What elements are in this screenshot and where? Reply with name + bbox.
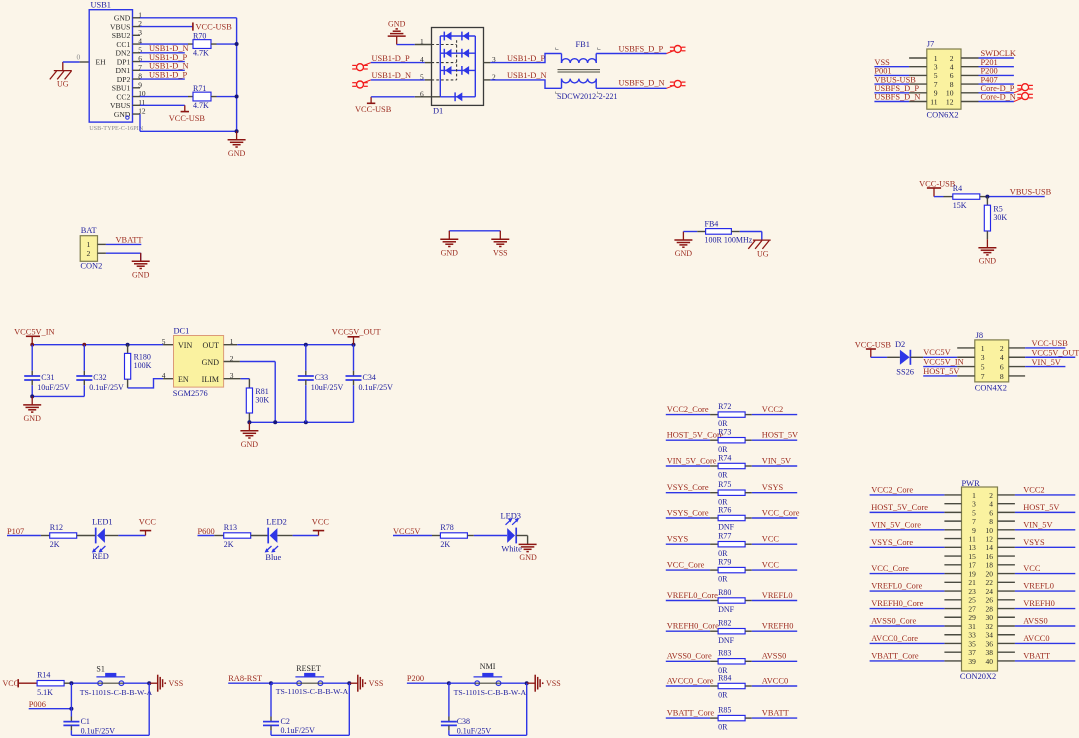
- wire J7 pin6 P200: [979, 74, 1014, 76]
- wire VSYS to R77: [666, 543, 710, 545]
- svg-text:VCC-USB: VCC-USB: [196, 22, 233, 31]
- svg-text:S1: S1: [96, 665, 104, 674]
- svg-text:D2: D2: [895, 340, 905, 349]
- svg-text:DNF: DNF: [718, 523, 735, 532]
- wire P107 to R12: [7, 535, 41, 537]
- resistor R85: [718, 706, 745, 732]
- svg-text:VCC: VCC: [1023, 564, 1041, 573]
- svg-text:R73: R73: [718, 428, 731, 437]
- power port VSS at RESET: [349, 675, 383, 692]
- wire R76 to VCC_Core: [745, 517, 752, 519]
- svg-text:2K: 2K: [50, 540, 60, 549]
- common-mode choke FB1: [556, 40, 618, 101]
- svg-text:EH: EH: [96, 58, 107, 67]
- svg-text:USB1-D_P: USB1-D_P: [149, 53, 188, 62]
- svg-text:P407: P407: [981, 75, 998, 84]
- svg-text:USB1-D_N: USB1-D_N: [507, 71, 547, 80]
- svg-text:C38: C38: [457, 717, 470, 726]
- svg-text:P200: P200: [981, 67, 998, 76]
- svg-text:RED: RED: [92, 552, 109, 561]
- svg-text:AVCC0_Core: AVCC0_Core: [871, 634, 918, 643]
- svg-text:VSYS: VSYS: [1023, 538, 1045, 547]
- svg-text:GND: GND: [388, 19, 406, 28]
- ground above D1: [388, 19, 406, 44]
- svg-text:R79: R79: [718, 558, 731, 567]
- svg-text:USBFS_D_N: USBFS_D_N: [874, 93, 920, 102]
- wire VBUS-USB to J7 pin7: [874, 83, 909, 85]
- svg-text:VSS: VSS: [169, 679, 184, 688]
- svg-text:7: 7: [981, 372, 985, 381]
- wire BAT pin1 VBATT: [106, 243, 141, 245]
- wire VSYS_Core to PWR pin13: [870, 546, 945, 548]
- svg-text:USBFS_D_N: USBFS_D_N: [619, 78, 665, 87]
- power port VCC5V_IN: [14, 328, 54, 345]
- wire D1 pin3 to FB1: [490, 54, 561, 63]
- svg-text:6: 6: [420, 89, 424, 98]
- svg-text:28: 28: [986, 604, 994, 613]
- resistor R84: [718, 673, 745, 699]
- pin stub GND of DC1: [224, 361, 240, 363]
- svg-text:11: 11: [930, 97, 938, 106]
- svg-text:FB1: FB1: [576, 40, 590, 49]
- wire GND to FB4: [683, 231, 697, 233]
- resistor R75: [718, 480, 745, 506]
- ground at BAT: [132, 253, 150, 279]
- wire C31-C32 bottom: [32, 395, 84, 397]
- svg-text:10uF/25V: 10uF/25V: [37, 383, 70, 392]
- wire R74 to VIN_5V: [745, 465, 752, 467]
- svg-text:5: 5: [420, 72, 424, 81]
- svg-text:VCC-USB: VCC-USB: [169, 114, 206, 123]
- wire junction down to C1: [70, 683, 72, 716]
- svg-text:18: 18: [986, 561, 994, 570]
- svg-text:2: 2: [87, 249, 91, 258]
- ground at R81: [240, 422, 258, 449]
- svg-text:USB1-D_N: USB1-D_N: [149, 44, 189, 53]
- svg-text:Core-D_N: Core-D_N: [981, 93, 1016, 102]
- power port VCC-USB at D2: [855, 341, 892, 358]
- svg-text:SDCW2012-2-221: SDCW2012-2-221: [557, 92, 617, 101]
- svg-text:0.1uF/25V: 0.1uF/25V: [81, 727, 116, 736]
- svg-text:VREFH0: VREFH0: [1023, 599, 1055, 608]
- svg-text:VCC: VCC: [762, 535, 780, 544]
- connector PWR: [944, 479, 1015, 681]
- wire PWR pin20 VCC: [1015, 573, 1075, 575]
- junction R81 bottom: [247, 420, 251, 424]
- svg-text:TS-1101S-C-B-B-W-A: TS-1101S-C-B-B-W-A: [276, 687, 349, 696]
- svg-text:P001: P001: [874, 67, 891, 76]
- wire pin1 GND to vertical rail: [140, 17, 237, 19]
- svg-text:TS-1101S-C-B-B-W-A: TS-1101S-C-B-B-W-A: [454, 688, 527, 697]
- svg-text:VCC2_Core: VCC2_Core: [871, 486, 913, 495]
- svg-text:VIN_5V_Core: VIN_5V_Core: [667, 456, 717, 465]
- port link Core-D_P: [1014, 90, 1022, 93]
- wire J7 pin10 Core-D_P: [979, 92, 1014, 94]
- wire AVSS0_Core to PWR pin31: [870, 625, 945, 627]
- LED LED2: [268, 528, 277, 544]
- wire R12 to LED1: [77, 535, 96, 537]
- svg-text:R75: R75: [718, 480, 731, 489]
- junction C33 bottom: [304, 420, 308, 424]
- port USBFS_D_N: [670, 80, 686, 87]
- junction P006: [69, 707, 73, 711]
- power port VCC-USB at R4: [919, 180, 956, 197]
- wire J8 pin6 VIN_5V: [1025, 366, 1065, 368]
- svg-text:3: 3: [138, 28, 142, 37]
- wire VCC5V to R78: [393, 535, 432, 537]
- svg-text:12: 12: [946, 97, 954, 106]
- wire NMI to VSS: [501, 682, 527, 684]
- wire RESET to VSS: [323, 682, 350, 684]
- svg-text:DN1: DN1: [116, 66, 131, 75]
- svg-text:CON6X2: CON6X2: [927, 110, 959, 119]
- resistor R70: [193, 31, 211, 57]
- wire pin8 USB1-D_P: [140, 78, 185, 80]
- wire GND pin to bottom rail: [240, 361, 275, 363]
- svg-text:0: 0: [77, 52, 81, 61]
- wire P006: [29, 708, 72, 710]
- wire RESET right down: [348, 683, 350, 735]
- junction R14/S1: [69, 681, 73, 685]
- svg-text:VSS: VSS: [369, 679, 384, 688]
- wire PWR pin2 VCC2: [1015, 494, 1075, 496]
- svg-text:DNF: DNF: [718, 605, 735, 614]
- switch RESET: [295, 673, 324, 686]
- resistor R76: [718, 505, 745, 531]
- svg-text:VSYS_Core: VSYS_Core: [667, 508, 709, 517]
- svg-text:R12: R12: [50, 523, 63, 532]
- port USB1-D_N (left): [352, 81, 368, 88]
- junction R4/R5: [985, 195, 989, 199]
- svg-text:R85: R85: [718, 706, 731, 715]
- svg-text:0R: 0R: [718, 549, 728, 558]
- svg-text:R13: R13: [224, 523, 237, 532]
- svg-text:R70: R70: [193, 31, 206, 40]
- svg-text:C33: C33: [315, 373, 328, 382]
- svg-text:VIN: VIN: [178, 341, 192, 350]
- svg-text:GND: GND: [441, 248, 459, 257]
- svg-text:VCC_Core: VCC_Core: [762, 508, 800, 517]
- svg-text:VCC_Core: VCC_Core: [667, 561, 705, 570]
- wire junction down to C38: [448, 683, 450, 716]
- svg-text:CON4X2: CON4X2: [975, 384, 1007, 393]
- capacitor C34: [346, 345, 394, 423]
- switch S1: [96, 673, 125, 686]
- wire J7 pin4 P201: [979, 66, 1014, 68]
- svg-text:VBUS: VBUS: [110, 101, 130, 110]
- wire P001 to J7 pin5: [874, 74, 909, 76]
- svg-text:27: 27: [968, 604, 976, 613]
- wire VBATT_Core to R85: [666, 717, 710, 719]
- svg-text:CC2: CC2: [116, 92, 130, 101]
- svg-text:5.1K: 5.1K: [37, 688, 53, 697]
- wire NMI right down: [526, 683, 528, 735]
- junction P200: [447, 681, 451, 685]
- svg-text:HOST_5V: HOST_5V: [762, 431, 798, 440]
- svg-text:VCC5V_OUT: VCC5V_OUT: [332, 328, 381, 337]
- svg-text:36: 36: [986, 639, 994, 648]
- pin stub VIN: [163, 344, 173, 346]
- junction S1/VSS: [147, 681, 151, 685]
- wire VREFH0_Core to PWR pin27: [870, 608, 945, 610]
- svg-text:37: 37: [968, 648, 976, 657]
- wire USB1-D_N to D1 pin5: [371, 79, 425, 81]
- resistor R79: [718, 558, 745, 584]
- svg-text:VCC-USB: VCC-USB: [1032, 339, 1069, 348]
- power port VCC at LED1: [139, 518, 157, 536]
- svg-text:32: 32: [986, 622, 994, 631]
- svg-text:0R: 0R: [718, 471, 728, 480]
- svg-text:GND: GND: [241, 440, 259, 449]
- LED LED3: [507, 528, 516, 544]
- resistor R13: [224, 523, 251, 549]
- wire PWR pin14 VSYS: [1015, 546, 1075, 548]
- svg-text:9: 9: [138, 80, 142, 89]
- svg-text:AVCC0: AVCC0: [762, 676, 788, 685]
- chassis ground UG: [50, 62, 72, 88]
- svg-text:USBFS_D_P: USBFS_D_P: [619, 45, 664, 54]
- svg-text:DC1: DC1: [174, 326, 190, 335]
- svg-text:R72: R72: [718, 402, 731, 411]
- wire C2 bottom rail: [271, 734, 349, 736]
- pin3 stub D1: [484, 62, 491, 64]
- svg-text:VCC5V: VCC5V: [923, 348, 950, 357]
- wire vertical GND rail: [236, 18, 238, 132]
- port USB1-D_P (left): [352, 64, 368, 71]
- svg-text:8: 8: [1000, 372, 1004, 381]
- svg-text:1: 1: [87, 240, 91, 249]
- wire HOST_5V_Core to PWR pin5: [870, 511, 945, 513]
- svg-text:LED2: LED2: [266, 518, 286, 527]
- svg-text:GND: GND: [114, 14, 131, 23]
- wire J7 pin2 SWDCLK: [979, 57, 1014, 59]
- LED3 arrows: [506, 518, 520, 525]
- wire EH to UG: [63, 61, 80, 63]
- wire VIN_5V_Core to R74: [666, 465, 710, 467]
- wire PWR pin10 VIN_5V: [1015, 529, 1075, 531]
- svg-text:PWR: PWR: [962, 479, 981, 488]
- svg-text:USB1-D_N: USB1-D_N: [149, 62, 189, 71]
- svg-text:R14: R14: [37, 671, 50, 680]
- svg-text:VCC2_Core: VCC2_Core: [667, 405, 709, 414]
- resistor R82: [718, 619, 745, 645]
- svg-text:GND: GND: [114, 110, 131, 119]
- svg-text:VIN_5V_Core: VIN_5V_Core: [871, 520, 921, 529]
- svg-text:ILIM: ILIM: [202, 375, 219, 384]
- svg-text:VSS: VSS: [874, 58, 890, 67]
- wire pin10 CC2 to R71: [140, 96, 188, 98]
- pin stub ILIM: [224, 378, 241, 380]
- wire ILIM to R81: [241, 378, 250, 380]
- svg-text:R76: R76: [718, 505, 731, 514]
- svg-text:10: 10: [946, 89, 954, 98]
- svg-text:GND: GND: [24, 414, 42, 423]
- svg-text:2K: 2K: [440, 540, 450, 549]
- wire R82 to VREFH0: [745, 630, 752, 632]
- svg-text:10: 10: [986, 526, 994, 535]
- svg-text:5: 5: [162, 337, 166, 346]
- svg-text:5: 5: [981, 362, 985, 371]
- svg-text:21: 21: [968, 578, 976, 587]
- wire pin11 VBUS: [140, 104, 185, 106]
- svg-text:17: 17: [968, 561, 976, 570]
- svg-text:VREFL0: VREFL0: [1023, 582, 1054, 591]
- capacitor C32: [76, 345, 124, 397]
- port link USBFS_D_P: [667, 51, 675, 54]
- svg-text:NMI: NMI: [480, 662, 496, 671]
- svg-text:1: 1: [972, 491, 976, 500]
- wire R78 to LED3: [467, 535, 473, 537]
- svg-text:4: 4: [1000, 353, 1004, 362]
- wire R73 to HOST_5V: [745, 439, 752, 441]
- svg-text:VCC-USB: VCC-USB: [355, 105, 392, 114]
- resistor R78: [440, 523, 467, 549]
- svg-text:R74: R74: [718, 453, 731, 462]
- svg-text:VBATT: VBATT: [1023, 652, 1050, 661]
- svg-text:34: 34: [986, 631, 994, 640]
- connector USB1: [89, 1, 146, 133]
- svg-text:GND: GND: [202, 358, 220, 367]
- svg-text:3: 3: [972, 500, 976, 509]
- svg-text:SGM2576: SGM2576: [173, 389, 208, 398]
- wire C1 bottom rail: [71, 734, 149, 736]
- svg-text:VCC2: VCC2: [762, 405, 783, 414]
- svg-text:DN2: DN2: [116, 49, 131, 58]
- svg-text:VREFH0_Core: VREFH0_Core: [871, 599, 923, 608]
- power port VCC5V_OUT: [332, 328, 381, 345]
- wire R80 to VREFL0: [745, 600, 752, 602]
- svg-text:10uF/25V: 10uF/25V: [311, 383, 344, 392]
- wire J8 pin2 VCC-USB: [1025, 347, 1065, 349]
- resistor R81: [246, 387, 269, 413]
- svg-text:GND: GND: [675, 249, 693, 258]
- wire R84 to AVCC0: [745, 685, 752, 687]
- junction R180 top: [126, 343, 130, 347]
- power port VSS at NMI: [527, 675, 561, 692]
- svg-text:15: 15: [968, 552, 976, 561]
- svg-text:0.1uF/25V: 0.1uF/25V: [457, 726, 492, 735]
- resistor R4: [953, 184, 980, 210]
- svg-text:C34: C34: [363, 373, 376, 382]
- LED2 arrows: [265, 546, 279, 553]
- chassis ground UG at FB4: [748, 240, 770, 259]
- svg-text:4: 4: [420, 55, 424, 64]
- svg-text:VREFL0: VREFL0: [762, 591, 793, 600]
- svg-text:C1: C1: [81, 717, 90, 726]
- svg-text:8: 8: [989, 517, 993, 526]
- svg-text:VCC5V: VCC5V: [393, 527, 420, 536]
- svg-text:VREFL0_Core: VREFL0_Core: [667, 591, 718, 600]
- wire pin7 USB1-D_N: [140, 69, 185, 71]
- port USBFS_D_P: [670, 46, 686, 53]
- svg-text:USB1: USB1: [91, 1, 111, 10]
- capacitor C1: [63, 717, 115, 736]
- svg-text:P107: P107: [7, 527, 24, 536]
- wire R71 to rail: [211, 96, 217, 98]
- ground at LED3: [519, 544, 537, 562]
- ground at C31: [23, 396, 41, 423]
- wire FB1 to USBFS_D_N port: [596, 87, 666, 89]
- svg-text:White: White: [501, 544, 522, 553]
- connector BAT: [80, 226, 106, 270]
- svg-text:33: 33: [968, 631, 976, 640]
- svg-text:FB4: FB4: [705, 219, 719, 228]
- svg-text:11: 11: [969, 535, 976, 544]
- wire R75 to VSYS: [745, 492, 752, 494]
- svg-text:LED1: LED1: [92, 518, 112, 527]
- wire BAT pin2 to GND: [106, 252, 141, 254]
- wire D2 to VCC5V: [910, 356, 923, 358]
- connector J7: [909, 40, 978, 120]
- svg-text:R4: R4: [953, 184, 962, 193]
- wire VREFL0_Core to PWR pin23: [870, 590, 945, 592]
- svg-text:9: 9: [972, 526, 976, 535]
- capacitor C33: [298, 345, 344, 423]
- pin2 stub D1: [484, 79, 491, 81]
- wire junction to NMI switch: [449, 682, 475, 684]
- svg-text:C32: C32: [93, 373, 106, 382]
- svg-text:R84: R84: [718, 673, 731, 682]
- wire USB1-D_P to D1 pin4: [371, 62, 425, 64]
- wire PWR pin36 AVCC0: [1015, 642, 1075, 644]
- resistor R71: [193, 84, 211, 110]
- svg-text:CC1: CC1: [116, 40, 130, 49]
- svg-text:2: 2: [989, 491, 993, 500]
- junction at R71/rail: [235, 95, 239, 99]
- ground: [228, 131, 246, 158]
- svg-text:SWDCLK: SWDCLK: [981, 49, 1016, 58]
- svg-text:VCC: VCC: [139, 518, 157, 527]
- wire OUT to VCC5V_OUT: [237, 344, 353, 346]
- wire P600 to R13: [198, 535, 215, 537]
- wire LED1 to VCC: [105, 535, 119, 537]
- svg-text:39: 39: [968, 657, 976, 666]
- svg-text:20: 20: [986, 569, 994, 578]
- svg-text:VCC2: VCC2: [1023, 486, 1044, 495]
- svg-text:35: 35: [968, 639, 976, 648]
- wire J7 pin8 P407: [979, 83, 1014, 85]
- svg-text:40: 40: [986, 657, 994, 666]
- pin stub OUT: [224, 344, 238, 346]
- LED1 arrows: [92, 546, 106, 553]
- junction C33 top: [304, 343, 308, 347]
- junction C34 top: [352, 343, 356, 347]
- svg-text:VBATT: VBATT: [762, 709, 789, 718]
- wire VSS to J7 pin3: [874, 66, 909, 68]
- resistor R77: [718, 532, 745, 558]
- svg-text:D1: D1: [433, 106, 443, 115]
- svg-text:22: 22: [986, 578, 994, 587]
- wire pin2 VBUS: [140, 26, 193, 28]
- svg-text:38: 38: [986, 648, 994, 657]
- svg-text:VCC: VCC: [312, 518, 330, 527]
- wire LED2 to VCC: [277, 535, 292, 537]
- svg-text:R83: R83: [718, 649, 731, 658]
- svg-text:4: 4: [162, 371, 166, 380]
- svg-text:VBUS-USB: VBUS-USB: [874, 75, 916, 84]
- wire RA8-RST to junction: [228, 682, 271, 684]
- svg-text:1: 1: [934, 54, 938, 63]
- capacitor C31: [24, 345, 70, 397]
- svg-text:3: 3: [981, 353, 985, 362]
- pin stub EN: [163, 378, 173, 380]
- junction at R70/rail: [235, 42, 239, 46]
- capacitor C38: [441, 717, 491, 736]
- wire pin5 USB1-D_N: [140, 52, 185, 54]
- ground at R5: [978, 239, 996, 266]
- wire VCC5V_IN rail: [32, 344, 163, 346]
- svg-text:4: 4: [989, 500, 993, 509]
